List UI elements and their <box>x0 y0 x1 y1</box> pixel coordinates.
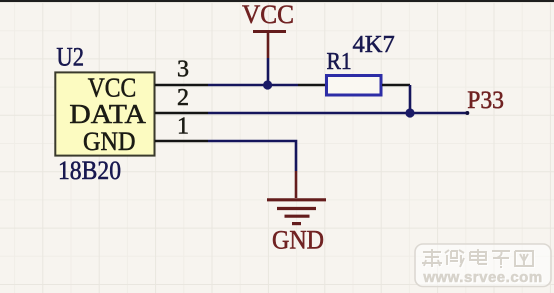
svg-text:GND: GND <box>83 126 136 156</box>
wire pin3 row <box>208 84 298 87</box>
wire pin1 row to ground <box>208 141 296 171</box>
svg-text:3: 3 <box>177 56 189 82</box>
svg-text:GND: GND <box>272 224 324 254</box>
svg-text:P33: P33 <box>467 85 504 114</box>
pin 3 <box>155 84 208 87</box>
svg-text:R1: R1 <box>327 48 352 75</box>
pin 1 <box>155 140 208 143</box>
svg-text:2: 2 <box>177 85 189 111</box>
svg-text:4K7: 4K7 <box>353 31 395 58</box>
VCC power port <box>253 32 286 59</box>
wire end node on P33 net <box>465 111 469 115</box>
svg-text:www.srvee.com: www.srvee.com <box>422 269 542 286</box>
junction on pin3 wire <box>263 80 272 89</box>
junction on pin2 wire <box>405 108 414 117</box>
watermark <box>415 244 551 287</box>
svg-text:U2: U2 <box>56 42 84 71</box>
svg-text:DATA: DATA <box>69 98 146 129</box>
wire VCC stem to junction <box>267 58 270 85</box>
resistor R1 <box>298 76 410 96</box>
svg-text:1: 1 <box>177 114 189 140</box>
ground <box>267 171 326 224</box>
IC U2 body (18B20) <box>55 72 154 155</box>
svg-text:18B20: 18B20 <box>58 156 121 185</box>
pin 2 <box>155 112 208 115</box>
wire pin2 row (DATA net) <box>208 112 468 115</box>
wire resistor down to data row <box>409 85 412 113</box>
svg-text:VCC: VCC <box>242 0 294 29</box>
